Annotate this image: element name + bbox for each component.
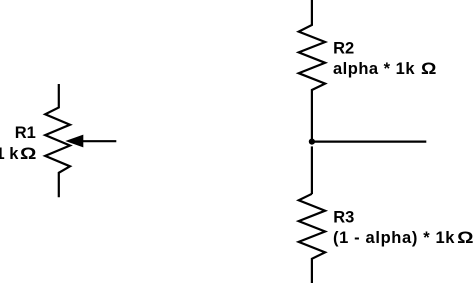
svg-text:(1 - alpha) * 1k: (1 - alpha) * 1k (333, 229, 455, 247)
svg-text:Ω: Ω (421, 60, 436, 78)
wire: node down to R3 (311, 146, 313, 194)
svg-text:alpha * 1k: alpha * 1k (333, 60, 415, 78)
svg-text:Ω: Ω (20, 145, 36, 163)
wire: node to right (wiper tap) (312, 141, 426, 143)
resistor R1 (potentiometer body) (45, 84, 70, 197)
svg-text:R3: R3 (333, 208, 354, 226)
svg-text:1 k: 1 k (0, 145, 19, 163)
svg-text:R1: R1 (15, 124, 36, 142)
wiper arrow of R1 (65, 135, 116, 148)
node junction dot (309, 139, 315, 145)
svg-text:R2: R2 (333, 40, 354, 58)
resistor R3 (299, 194, 325, 283)
resistor R2 (299, 0, 325, 140)
svg-text:Ω: Ω (457, 229, 473, 247)
